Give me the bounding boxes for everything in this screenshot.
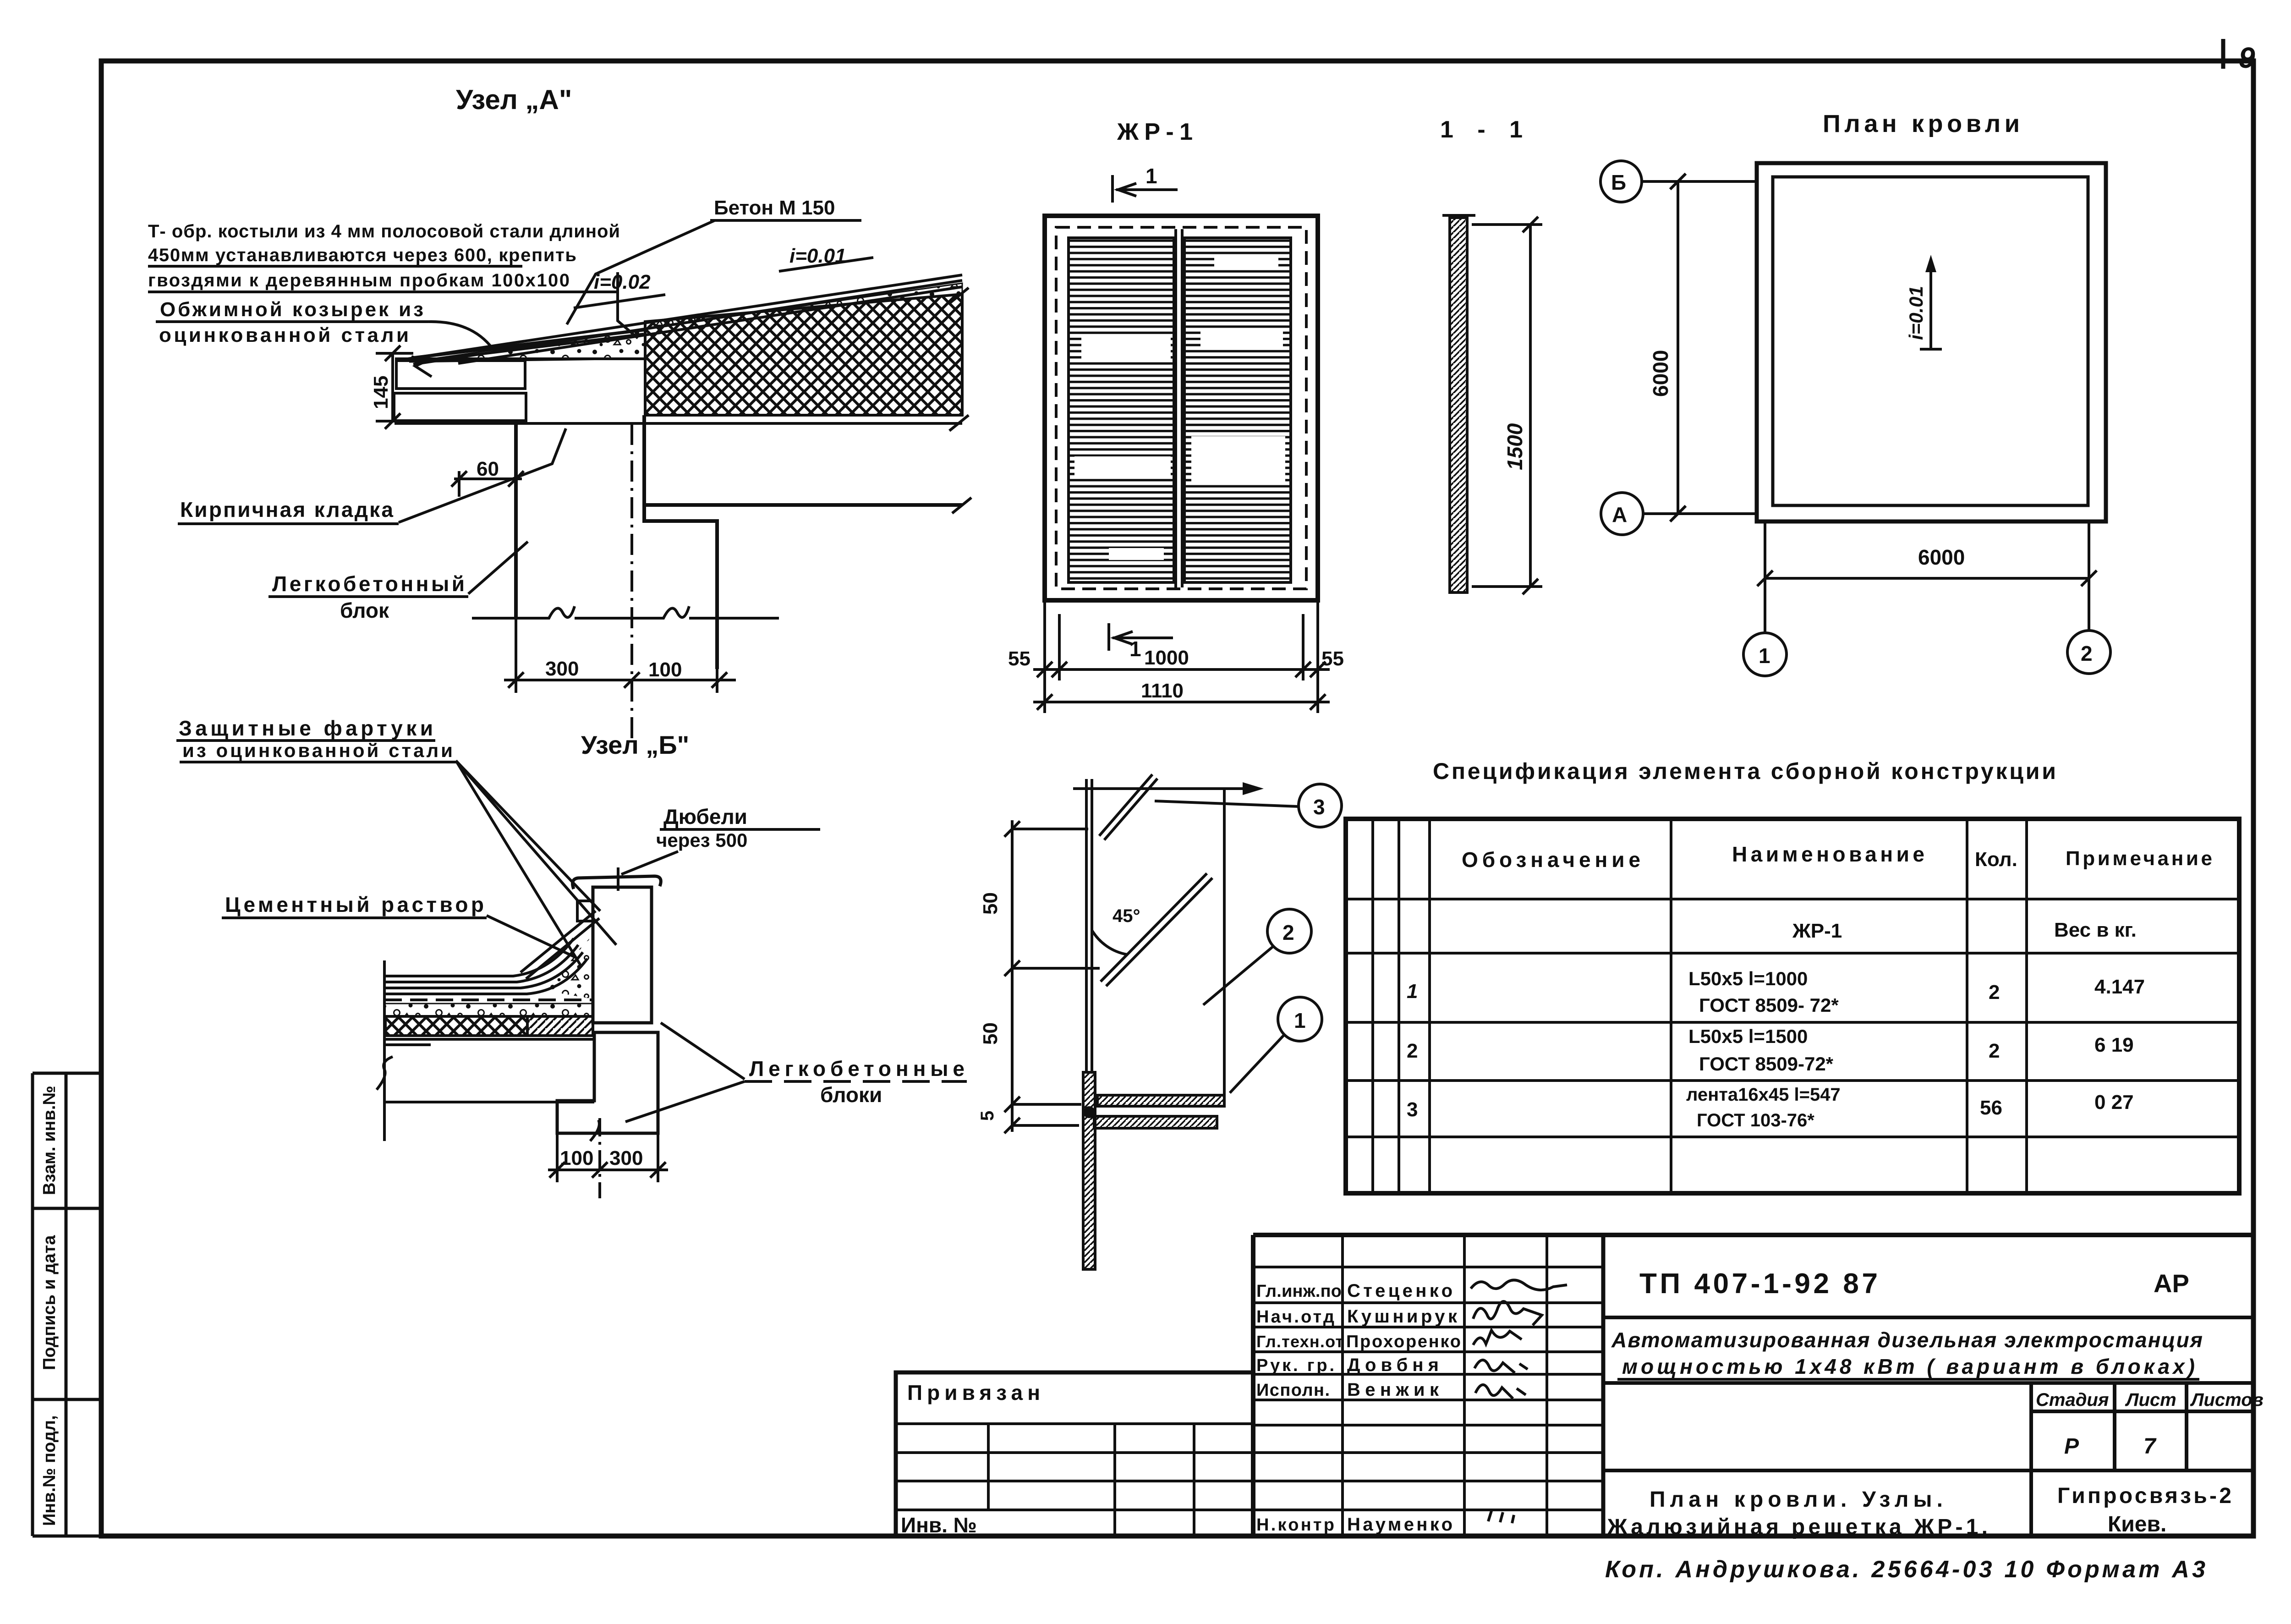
svg-text:ЖР-1: ЖР-1 (1792, 920, 1842, 942)
slope symbol i=0.01 (1929, 260, 1932, 349)
svg-text:45°: 45° (1113, 906, 1140, 926)
louvre slats right (1184, 238, 1291, 582)
svg-text:гвоздями к деревянным пробкам: гвоздями к деревянным пробкам 100х100 (148, 270, 570, 291)
svg-text:Гл.техн.от: Гл.техн.от (1256, 1332, 1343, 1351)
svg-text:Науменко: Науменко (1347, 1514, 1452, 1535)
sheet number tick (2221, 39, 2225, 69)
dim lines left of detail (1004, 820, 1100, 1133)
svg-text:450мм устанавливаются через 60: 450мм устанавливаются через 600, крепить (148, 245, 576, 265)
section mark top (1113, 175, 1178, 203)
svg-text:6000: 6000 (1649, 350, 1672, 397)
upper block (593, 887, 652, 1023)
svg-text:100: 100 (648, 658, 682, 681)
svg-text:60: 60 (477, 458, 499, 480)
svg-text:Инв. №: Инв. № (901, 1513, 977, 1537)
svg-text:Кушнирук: Кушнирук (1347, 1306, 1458, 1327)
insulation cross-hatched block (645, 294, 962, 415)
main stamp row lines (1603, 1317, 2253, 1536)
45deg arc and label (1092, 930, 1127, 955)
svg-text:2: 2 (1989, 1040, 2000, 1062)
svg-text:Т- обр. костыли из 4 мм полосо: Т- обр. костыли из 4 мм полосовой стали … (148, 221, 620, 241)
screed speckled band (384, 1004, 593, 1016)
slab bottom line (384, 1101, 594, 1103)
svg-text:Спецификация элемента сборной: Спецификация элемента сборной конструкци… (1433, 758, 2056, 784)
ceiling slab lines (644, 503, 962, 507)
svg-text:через 500: через 500 (656, 829, 747, 851)
wall top line (395, 422, 962, 425)
svg-text:100: 100 (560, 1147, 593, 1169)
louvre dim extension lines (1033, 603, 1330, 713)
lower hatched flange (1094, 1116, 1217, 1128)
svg-text:9: 9 (2239, 41, 2255, 74)
leader to visor (428, 322, 493, 349)
axis circle 1 (1743, 633, 1787, 676)
svg-text:6000: 6000 (1918, 545, 1965, 569)
svg-text:300: 300 (545, 658, 579, 680)
axis circle 2 (2067, 631, 2110, 674)
dim 300 100 extension lines (515, 618, 517, 693)
svg-text:2: 2 (1283, 921, 1294, 944)
blade middle 45deg (1101, 873, 1207, 982)
svg-text:ГОСТ 103-76*: ГОСТ 103-76* (1697, 1110, 1814, 1130)
signatures squiggles (1471, 1280, 1567, 1523)
wall axis dash-dot (630, 424, 633, 740)
signature table row lines (1253, 1267, 1603, 1510)
dim 60 (451, 471, 524, 497)
svg-text:Прохоренко: Прохоренко (1346, 1332, 1461, 1351)
svg-text:Киев.: Киев. (2108, 1512, 2166, 1536)
frame right edge (1223, 789, 1226, 1095)
spec table frame (1346, 819, 2239, 1193)
dowel tick (617, 867, 619, 891)
svg-text:Б: Б (1611, 170, 1626, 194)
svg-text:1: 1 (1759, 644, 1770, 668)
svg-text:Кирпичная кладка: Кирпичная кладка (180, 498, 393, 521)
block notch (577, 901, 593, 921)
svg-text:Листов: Листов (2190, 1390, 2264, 1410)
brick course 1 (396, 361, 525, 389)
section bar hatched (1450, 218, 1467, 593)
dim 1500 (1472, 217, 1542, 594)
svg-text:1110: 1110 (1141, 680, 1184, 702)
svg-text:План кровли: План кровли (1823, 110, 2020, 137)
svg-text:i=0.01: i=0.01 (1905, 286, 1927, 340)
svg-text:2: 2 (1407, 1040, 1418, 1062)
note underlines (148, 265, 522, 268)
svg-text:План кровли. Узлы.: План кровли. Узлы. (1650, 1487, 1943, 1512)
visor hook tip (411, 357, 432, 377)
faded patches (1074, 257, 1285, 560)
dim 100 300 under узел Б (548, 1118, 668, 1198)
svg-text:блоки: блоки (820, 1083, 882, 1107)
svg-text:1 - 1: 1 - 1 (1440, 116, 1523, 143)
visor flashing (412, 330, 644, 358)
svg-text:Узел „Б": Узел „Б" (581, 730, 689, 759)
svg-text:Дюбели: Дюбели (663, 805, 747, 828)
svg-text:Инв.№ подл,: Инв.№ подл, (40, 1415, 59, 1526)
svg-text:4.147: 4.147 (2094, 976, 2145, 998)
svg-text:50: 50 (979, 892, 1002, 915)
svg-text:Взам. инв.№: Взам. инв.№ (40, 1086, 59, 1195)
svg-text:1: 1 (1129, 637, 1141, 661)
leader Бетон (567, 220, 715, 324)
louvre inner dashed frame (1056, 227, 1306, 589)
svg-text:ГОСТ 8509-72*: ГОСТ 8509-72* (1699, 1053, 1834, 1075)
svg-text:А: А (1612, 503, 1627, 527)
right edge break ticks (949, 288, 971, 513)
roof membrane layers (384, 938, 587, 994)
svg-text:Стадия: Стадия (2036, 1390, 2109, 1410)
svg-text:Коп. Андрушкова. 25664-03 10: Коп. Андрушкова. 25664-03 10 Формат А3 (1605, 1556, 2205, 1583)
axis circle Б (1600, 161, 1642, 202)
svg-text:Исполн.: Исполн. (1256, 1381, 1330, 1400)
top line with arrow (1073, 787, 1258, 790)
svg-text:Подпись и дата: Подпись и дата (40, 1235, 59, 1370)
svg-text:блок: блок (340, 598, 389, 622)
svg-text:i=0.02: i=0.02 (594, 271, 651, 293)
svg-text:оцинкованной стали: оцинкованной стали (159, 324, 409, 346)
leaders to flashing (456, 761, 600, 911)
junction dot (1083, 1106, 1095, 1118)
svg-text:1500: 1500 (1503, 423, 1527, 470)
brick course 2 (394, 393, 526, 421)
svg-text:лента16х45 l=547: лента16х45 l=547 (1686, 1085, 1841, 1105)
svg-text:Примечание: Примечание (2066, 847, 2212, 870)
title block outer lines (1253, 1235, 2253, 1536)
Привязан box (896, 1372, 1253, 1536)
svg-text:Вес в кг.: Вес в кг. (2054, 919, 2137, 941)
lower block outline (557, 1032, 658, 1133)
svg-text:1: 1 (1294, 1009, 1306, 1032)
svg-text:3: 3 (1407, 1098, 1418, 1121)
bar top tick (1442, 214, 1475, 217)
svg-text:7: 7 (2143, 1434, 2157, 1459)
svg-text:ГОСТ 8509- 72*: ГОСТ 8509- 72* (1699, 994, 1839, 1016)
svg-text:Р: Р (2064, 1434, 2079, 1459)
frame vertical member (1085, 779, 1088, 1072)
mortar wedge speckles (541, 935, 593, 999)
axis circle А (1601, 493, 1643, 535)
callout circle 2 (1267, 909, 1311, 953)
break mark above dim (590, 1120, 599, 1141)
svg-text:Гл.инж.по: Гл.инж.по (1256, 1282, 1342, 1301)
blade top 45deg (1099, 774, 1152, 836)
svg-text:2: 2 (1989, 981, 2000, 1004)
svg-text:6 19: 6 19 (2094, 1034, 2134, 1056)
concrete speckled wedge (409, 283, 962, 362)
vertical dim 6000 (1677, 181, 1679, 514)
horizontal dim 6000 (1757, 571, 2097, 586)
callout circle 3 (1299, 784, 1342, 827)
svg-text:L50х5 l=1000: L50х5 l=1000 (1688, 968, 1808, 989)
svg-text:ЖР-1: ЖР-1 (1117, 119, 1193, 145)
svg-text:55: 55 (1321, 647, 1344, 670)
roof plan inner rect (1773, 177, 2088, 505)
section mark bottom (1109, 623, 1173, 651)
svg-text:Обозначение: Обозначение (1462, 848, 1640, 872)
svg-text:Защитные фартуки: Защитные фартуки (179, 716, 433, 740)
insulation band diagonal (527, 1016, 593, 1036)
note leader bracket (618, 272, 638, 338)
svg-text:50: 50 (979, 1022, 1002, 1045)
flashing diagonals (521, 911, 596, 972)
interior step (644, 415, 717, 669)
louvre centre divider (1174, 229, 1177, 587)
vertical hatched bar below (1083, 1072, 1095, 1269)
svg-text:Кол.: Кол. (1975, 848, 2017, 871)
svg-text:L50х5 l=1500: L50х5 l=1500 (1688, 1026, 1808, 1047)
parapet cap profile (573, 876, 661, 889)
svg-text:Легкобетонный: Легкобетонный (272, 572, 465, 596)
svg-text:Гипросвязь-2: Гипросвязь-2 (2057, 1484, 2231, 1508)
left margin column boxes (33, 1073, 101, 1536)
louvre outer frame (1045, 216, 1318, 600)
bottom hatched flange of box (1097, 1095, 1224, 1106)
svg-text:Привязан: Привязан (907, 1381, 1040, 1405)
svg-text:145: 145 (370, 376, 392, 409)
svg-text:Бетон М 150: Бетон М 150 (714, 197, 835, 219)
svg-text:Жалюзийная решетка ЖР-1.: Жалюзийная решетка ЖР-1. (1607, 1515, 1988, 1539)
svg-text:2: 2 (2081, 642, 2093, 665)
bed line on parapet (395, 357, 645, 360)
wall left face (514, 423, 518, 618)
svg-text:0 27: 0 27 (2094, 1091, 2134, 1114)
left cut line (383, 960, 386, 1141)
svg-text:1: 1 (1145, 164, 1157, 188)
callout circle 1 (1278, 997, 1322, 1041)
signature table texts (1256, 1281, 1461, 1535)
svg-text:Лист: Лист (2125, 1390, 2176, 1410)
roof plan outer rect (1757, 163, 2106, 521)
svg-text:3: 3 (1313, 795, 1325, 819)
svg-text:1: 1 (1407, 980, 1418, 1003)
svg-text:АР: АР (2154, 1269, 2189, 1298)
svg-text:5: 5 (977, 1111, 998, 1121)
dim line 300 100 (504, 672, 736, 688)
svg-text:Узел „А": Узел „А" (456, 84, 572, 115)
dim 145 (376, 346, 453, 429)
roof sloping lines (408, 275, 962, 359)
svg-text:56: 56 (1980, 1097, 2002, 1119)
ground break line with S-breaks (472, 606, 779, 618)
insulation band crosshatch (385, 1016, 527, 1036)
louvre slats left (1069, 238, 1174, 582)
svg-text:300: 300 (609, 1147, 643, 1169)
slab top lines (384, 1038, 593, 1041)
svg-text:55: 55 (1008, 647, 1030, 670)
svg-text:Автоматизированная дизельная э: Автоматизированная дизельная электростан… (1611, 1328, 2203, 1352)
svg-text:1000: 1000 (1144, 647, 1189, 669)
left break mark (377, 1057, 393, 1090)
